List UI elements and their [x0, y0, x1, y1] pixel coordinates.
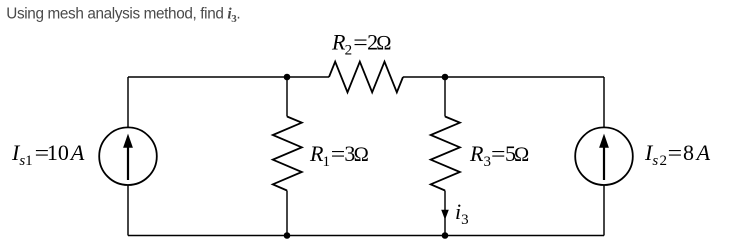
current source Is2 — [575, 127, 633, 185]
wire R3 top lead — [444, 77, 446, 117]
svg-text:Is2=8A: Is2=8A — [644, 140, 711, 169]
wire R1 bottom lead — [286, 191, 288, 236]
wire node A to R2 left — [287, 76, 329, 78]
wire bottom-middle segment — [287, 235, 445, 237]
wire bottom-left segment — [128, 235, 287, 237]
wire right upper — [603, 77, 605, 128]
wire right lower — [603, 185, 605, 236]
junction node B — [442, 74, 449, 81]
wire R1 top lead — [286, 77, 288, 117]
wire R2 right to node B — [403, 76, 445, 78]
wire top-left segment — [128, 76, 287, 78]
svg-text:R2=2Ω: R2=2Ω — [331, 30, 392, 59]
junction node A — [284, 74, 291, 81]
resistor R2 — [329, 62, 403, 93]
current source Is1 — [99, 127, 157, 185]
junction node D — [442, 232, 449, 239]
resistor R3 — [431, 117, 460, 191]
wire left upper — [127, 77, 129, 128]
wire R3 bottom lead with current arrow i3 — [441, 191, 449, 236]
svg-text:i3: i3 — [455, 199, 469, 228]
junction node C — [284, 232, 291, 239]
svg-text:Is1=10A: Is1=10A — [11, 140, 85, 169]
svg-text:R1=3Ω: R1=3Ω — [309, 141, 369, 170]
title text — [6, 5, 240, 25]
svg-text:Using mesh analysis method, fi: Using mesh analysis method, find i3. — [6, 5, 240, 25]
wire bottom-right segment — [445, 235, 604, 237]
resistor R1 — [273, 117, 302, 191]
svg-text:R3=5Ω: R3=5Ω — [469, 141, 530, 170]
wire left lower — [127, 185, 129, 236]
wire top-right segment — [445, 76, 604, 78]
